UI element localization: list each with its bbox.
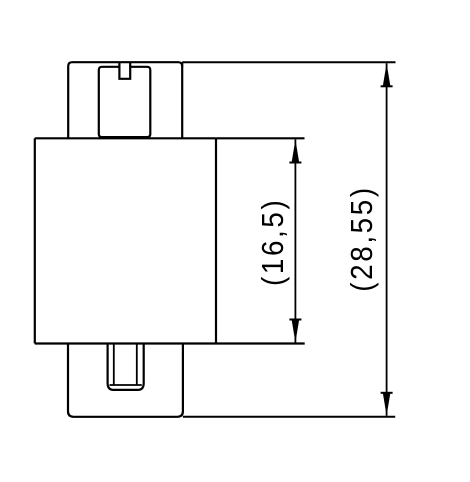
dimension line (28,55) — [386, 63, 388, 416]
bottom tab outline — [68, 344, 183, 417]
svg-text:(28,55): (28,55) — [345, 185, 380, 291]
top tab outline — [68, 62, 182, 138]
extension line bottom (28,55) — [183, 416, 395, 418]
extension line top (28,55) — [182, 61, 395, 63]
slot notch — [119, 62, 130, 79]
svg-text:(16,5): (16,5) — [256, 198, 291, 286]
slot outline — [99, 67, 151, 137]
arrowhead down (16,5) — [292, 320, 300, 343]
pin inner left line — [113, 344, 115, 386]
arrow tick up (16,5) — [289, 162, 301, 164]
top tab right edge — [181, 62, 183, 138]
pin inner bottom line — [110, 384, 142, 386]
dimension line (16,5) — [294, 140, 296, 343]
body left edge — [34, 138, 36, 343]
arrow tick down (28,55) — [381, 392, 393, 394]
pin inner right line — [136, 344, 138, 386]
body top line + extension (16,5) — [35, 137, 305, 139]
pin outer outline — [108, 344, 144, 390]
arrowhead down (28,55) — [383, 393, 391, 416]
body right edge — [215, 138, 217, 343]
body bottom line + extension — [35, 342, 305, 344]
arrow tick down (16,5) — [289, 319, 301, 321]
arrow tick up (28,55) — [381, 85, 393, 87]
arrowhead up (16,5) — [292, 140, 300, 163]
arrowhead up (28,55) — [383, 63, 391, 86]
